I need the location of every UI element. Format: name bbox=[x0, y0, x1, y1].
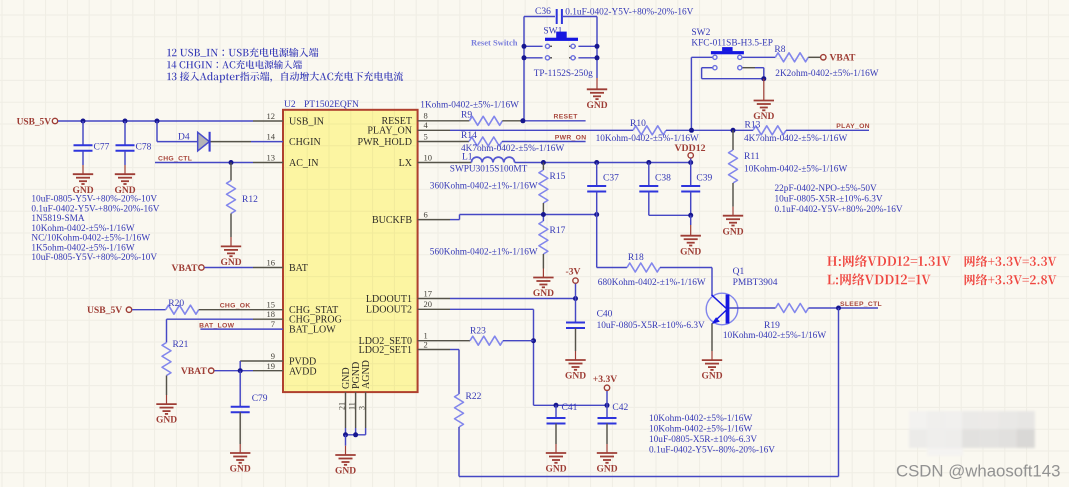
svg-text:10Kohm-0402-±5%-1/16W: 10Kohm-0402-±5%-1/16W bbox=[649, 425, 752, 435]
svg-text:R18: R18 bbox=[628, 253, 644, 263]
svg-text:USB_5V: USB_5V bbox=[17, 117, 52, 127]
svg-text:R11: R11 bbox=[744, 152, 760, 162]
svg-text:U2: U2 bbox=[284, 100, 296, 110]
svg-text:CHG_OK: CHG_OK bbox=[220, 303, 251, 310]
svg-text:10Kohm-0402-±5%-1/16W: 10Kohm-0402-±5%-1/16W bbox=[649, 414, 752, 424]
svg-text:C77: C77 bbox=[94, 143, 110, 153]
svg-text:0.1uF-0402-Y5V-+80%-20%-16V: 0.1uF-0402-Y5V-+80%-20%-16V bbox=[31, 204, 159, 214]
svg-text:560Kohm-0402-±1%-1/16W: 560Kohm-0402-±1%-1/16W bbox=[430, 248, 538, 258]
svg-text:R12: R12 bbox=[242, 195, 258, 205]
svg-text:AC_IN: AC_IN bbox=[289, 158, 318, 169]
svg-text:BUCKFB: BUCKFB bbox=[372, 215, 412, 226]
svg-text:7: 7 bbox=[271, 319, 275, 329]
svg-text:R23: R23 bbox=[470, 326, 486, 336]
svg-text:10uF-0805-X5R-±10%-6.3V: 10uF-0805-X5R-±10%-6.3V bbox=[649, 435, 757, 445]
svg-text:PLAY_ON: PLAY_ON bbox=[836, 123, 870, 130]
svg-text:GND: GND bbox=[335, 467, 356, 477]
svg-text:12: 12 bbox=[267, 111, 276, 121]
svg-text:SWPU3015S100MT: SWPU3015S100MT bbox=[450, 164, 528, 174]
svg-text:NC/10Kohm-0402-±5%-1/16W: NC/10Kohm-0402-±5%-1/16W bbox=[31, 234, 150, 244]
svg-text:15: 15 bbox=[267, 300, 276, 310]
svg-text:LDO2_SET1: LDO2_SET1 bbox=[359, 345, 412, 356]
svg-text:1K5ohm-0402-±5%-1/16W: 1K5ohm-0402-±5%-1/16W bbox=[31, 243, 134, 253]
svg-text:2K2ohm-0402-±5%-1/16W: 2K2ohm-0402-±5%-1/16W bbox=[775, 69, 878, 79]
svg-text:360Kohm-0402-±1%-1/16W: 360Kohm-0402-±1%-1/16W bbox=[430, 182, 538, 192]
svg-text:R20: R20 bbox=[168, 299, 184, 309]
svg-text:14: 14 bbox=[267, 131, 276, 141]
svg-text:R10: R10 bbox=[630, 119, 646, 129]
svg-text:CHG_CTL: CHG_CTL bbox=[158, 156, 192, 163]
svg-text:C40: C40 bbox=[597, 310, 613, 320]
svg-text:GND: GND bbox=[156, 416, 177, 426]
svg-text:10uF-0805-X5R-±10%-6.3V: 10uF-0805-X5R-±10%-6.3V bbox=[775, 195, 883, 205]
svg-text:16: 16 bbox=[267, 257, 276, 267]
svg-text:0.1uF-0402-Y5V-+80%-20%-16V: 0.1uF-0402-Y5V-+80%-20%-16V bbox=[565, 8, 693, 18]
svg-text:9: 9 bbox=[271, 351, 275, 361]
svg-text:PMBT3904: PMBT3904 bbox=[733, 278, 778, 288]
svg-text:AGND: AGND bbox=[361, 360, 372, 389]
svg-text:GND: GND bbox=[586, 101, 607, 111]
svg-text:13: 13 bbox=[267, 152, 276, 162]
svg-text:20: 20 bbox=[424, 299, 433, 309]
svg-text:RESET: RESET bbox=[554, 114, 579, 121]
svg-text:R14: R14 bbox=[461, 131, 477, 141]
svg-text:GND: GND bbox=[545, 465, 566, 475]
svg-text:680Kohm-0402-±1%-1/16W: 680Kohm-0402-±1%-1/16W bbox=[598, 278, 706, 288]
svg-text:SLEEP_CTL: SLEEP_CTL bbox=[840, 301, 882, 308]
svg-text:10: 10 bbox=[424, 152, 433, 162]
svg-text:GND: GND bbox=[722, 227, 743, 237]
svg-text:R13: R13 bbox=[745, 120, 761, 130]
svg-text:8: 8 bbox=[424, 111, 428, 121]
svg-text:10Kohm-0402-±5%-1/16W: 10Kohm-0402-±5%-1/16W bbox=[31, 224, 134, 234]
svg-text:1N5819-SMA: 1N5819-SMA bbox=[31, 214, 84, 224]
svg-text:C42: C42 bbox=[612, 403, 628, 413]
svg-text:C78: C78 bbox=[136, 143, 152, 153]
svg-text:C38: C38 bbox=[655, 174, 671, 184]
svg-text:GND: GND bbox=[220, 258, 241, 268]
svg-text:GND: GND bbox=[701, 372, 722, 382]
svg-text:D4: D4 bbox=[178, 132, 190, 142]
svg-text:5: 5 bbox=[424, 131, 428, 141]
svg-text:AVDD: AVDD bbox=[289, 366, 317, 377]
svg-text:6: 6 bbox=[424, 209, 428, 219]
svg-text:TP-1152S-250g: TP-1152S-250g bbox=[534, 69, 593, 79]
svg-text:4K7ohm-0402-±5%-1/16W: 4K7ohm-0402-±5%-1/16W bbox=[744, 134, 847, 144]
svg-text:L1: L1 bbox=[462, 153, 473, 163]
svg-text:LDOOUT1: LDOOUT1 bbox=[366, 294, 412, 305]
svg-text:C79: C79 bbox=[252, 394, 268, 404]
svg-text:PWR_HOLD: PWR_HOLD bbox=[358, 137, 412, 148]
svg-text:SW2: SW2 bbox=[691, 28, 710, 38]
svg-text:1Kohm-0402-±5%-1/16W: 1Kohm-0402-±5%-1/16W bbox=[420, 101, 519, 111]
svg-text:LDOOUT2: LDOOUT2 bbox=[366, 305, 412, 316]
svg-text:18: 18 bbox=[267, 309, 276, 319]
svg-text:GND: GND bbox=[680, 247, 701, 257]
svg-text:BAT_LOW: BAT_LOW bbox=[199, 322, 234, 329]
svg-text:R21: R21 bbox=[173, 340, 189, 350]
svg-text:USB_IN: USB_IN bbox=[289, 116, 324, 127]
svg-text:R15: R15 bbox=[550, 172, 566, 182]
svg-text:VBAT: VBAT bbox=[181, 366, 208, 377]
svg-text:C37: C37 bbox=[603, 174, 619, 184]
svg-text:0.1uF-0402-Y5V--80%-20%-16V: 0.1uF-0402-Y5V--80%-20%-16V bbox=[649, 446, 775, 456]
svg-text:R9: R9 bbox=[461, 111, 472, 121]
svg-text:Q1: Q1 bbox=[733, 267, 745, 277]
svg-text:GND: GND bbox=[565, 372, 586, 382]
svg-text:R19: R19 bbox=[764, 321, 780, 331]
svg-text:C39: C39 bbox=[696, 174, 712, 184]
svg-text:R22: R22 bbox=[466, 392, 482, 402]
svg-text:PT1502EQFN: PT1502EQFN bbox=[304, 100, 359, 110]
svg-text:PLAY_ON: PLAY_ON bbox=[367, 126, 412, 137]
svg-text:CHGIN: CHGIN bbox=[289, 137, 321, 148]
svg-text:BAT_LOW: BAT_LOW bbox=[289, 325, 336, 336]
svg-text:CSDN @whaosoft143: CSDN @whaosoft143 bbox=[896, 462, 1060, 481]
svg-text:PWR_ON: PWR_ON bbox=[555, 134, 587, 141]
svg-text:GND: GND bbox=[230, 465, 251, 475]
svg-text:10Kohm-0402-±5%-1/16W: 10Kohm-0402-±5%-1/16W bbox=[744, 165, 847, 175]
svg-text:17: 17 bbox=[424, 288, 433, 298]
svg-text:VBAT: VBAT bbox=[830, 53, 857, 64]
svg-text:+3.3V: +3.3V bbox=[593, 374, 617, 385]
svg-text:10uF-0805-X5R-±10%-6.3V: 10uF-0805-X5R-±10%-6.3V bbox=[597, 321, 705, 331]
svg-text:19: 19 bbox=[267, 361, 276, 371]
svg-text:R17: R17 bbox=[550, 226, 566, 236]
svg-text:10uF-0805-Y5V-+80%-20%-10V: 10uF-0805-Y5V-+80%-20%-10V bbox=[31, 195, 157, 205]
svg-text:4K7ohm-0402-±5%-1/16W: 4K7ohm-0402-±5%-1/16W bbox=[461, 144, 564, 154]
svg-text:VBAT: VBAT bbox=[172, 263, 199, 274]
svg-text:R8: R8 bbox=[774, 45, 785, 55]
svg-text:LX: LX bbox=[399, 158, 413, 169]
svg-text:KFC-011SB-H3.5-EP: KFC-011SB-H3.5-EP bbox=[691, 39, 773, 49]
svg-text:USB_5V: USB_5V bbox=[87, 305, 122, 316]
svg-text:Reset Switch: Reset Switch bbox=[471, 38, 518, 48]
svg-text:22pF-0402-NPO-±5%-50V: 22pF-0402-NPO-±5%-50V bbox=[775, 184, 877, 194]
svg-text:C41: C41 bbox=[562, 403, 578, 413]
svg-text:10Kohm-0402-±5%-1/16W: 10Kohm-0402-±5%-1/16W bbox=[723, 331, 826, 341]
svg-text:10uF-0805-Y5V-+80%-20%-10V: 10uF-0805-Y5V-+80%-20%-10V bbox=[31, 253, 157, 263]
svg-text:-3V: -3V bbox=[566, 267, 581, 278]
svg-text:GND: GND bbox=[596, 465, 617, 475]
svg-text:C36: C36 bbox=[535, 7, 551, 17]
svg-text:BAT: BAT bbox=[289, 263, 308, 274]
svg-text:0.1uF-0402-Y5V-+80%-20%-16V: 0.1uF-0402-Y5V-+80%-20%-16V bbox=[775, 205, 903, 215]
svg-text:GND: GND bbox=[533, 289, 554, 299]
